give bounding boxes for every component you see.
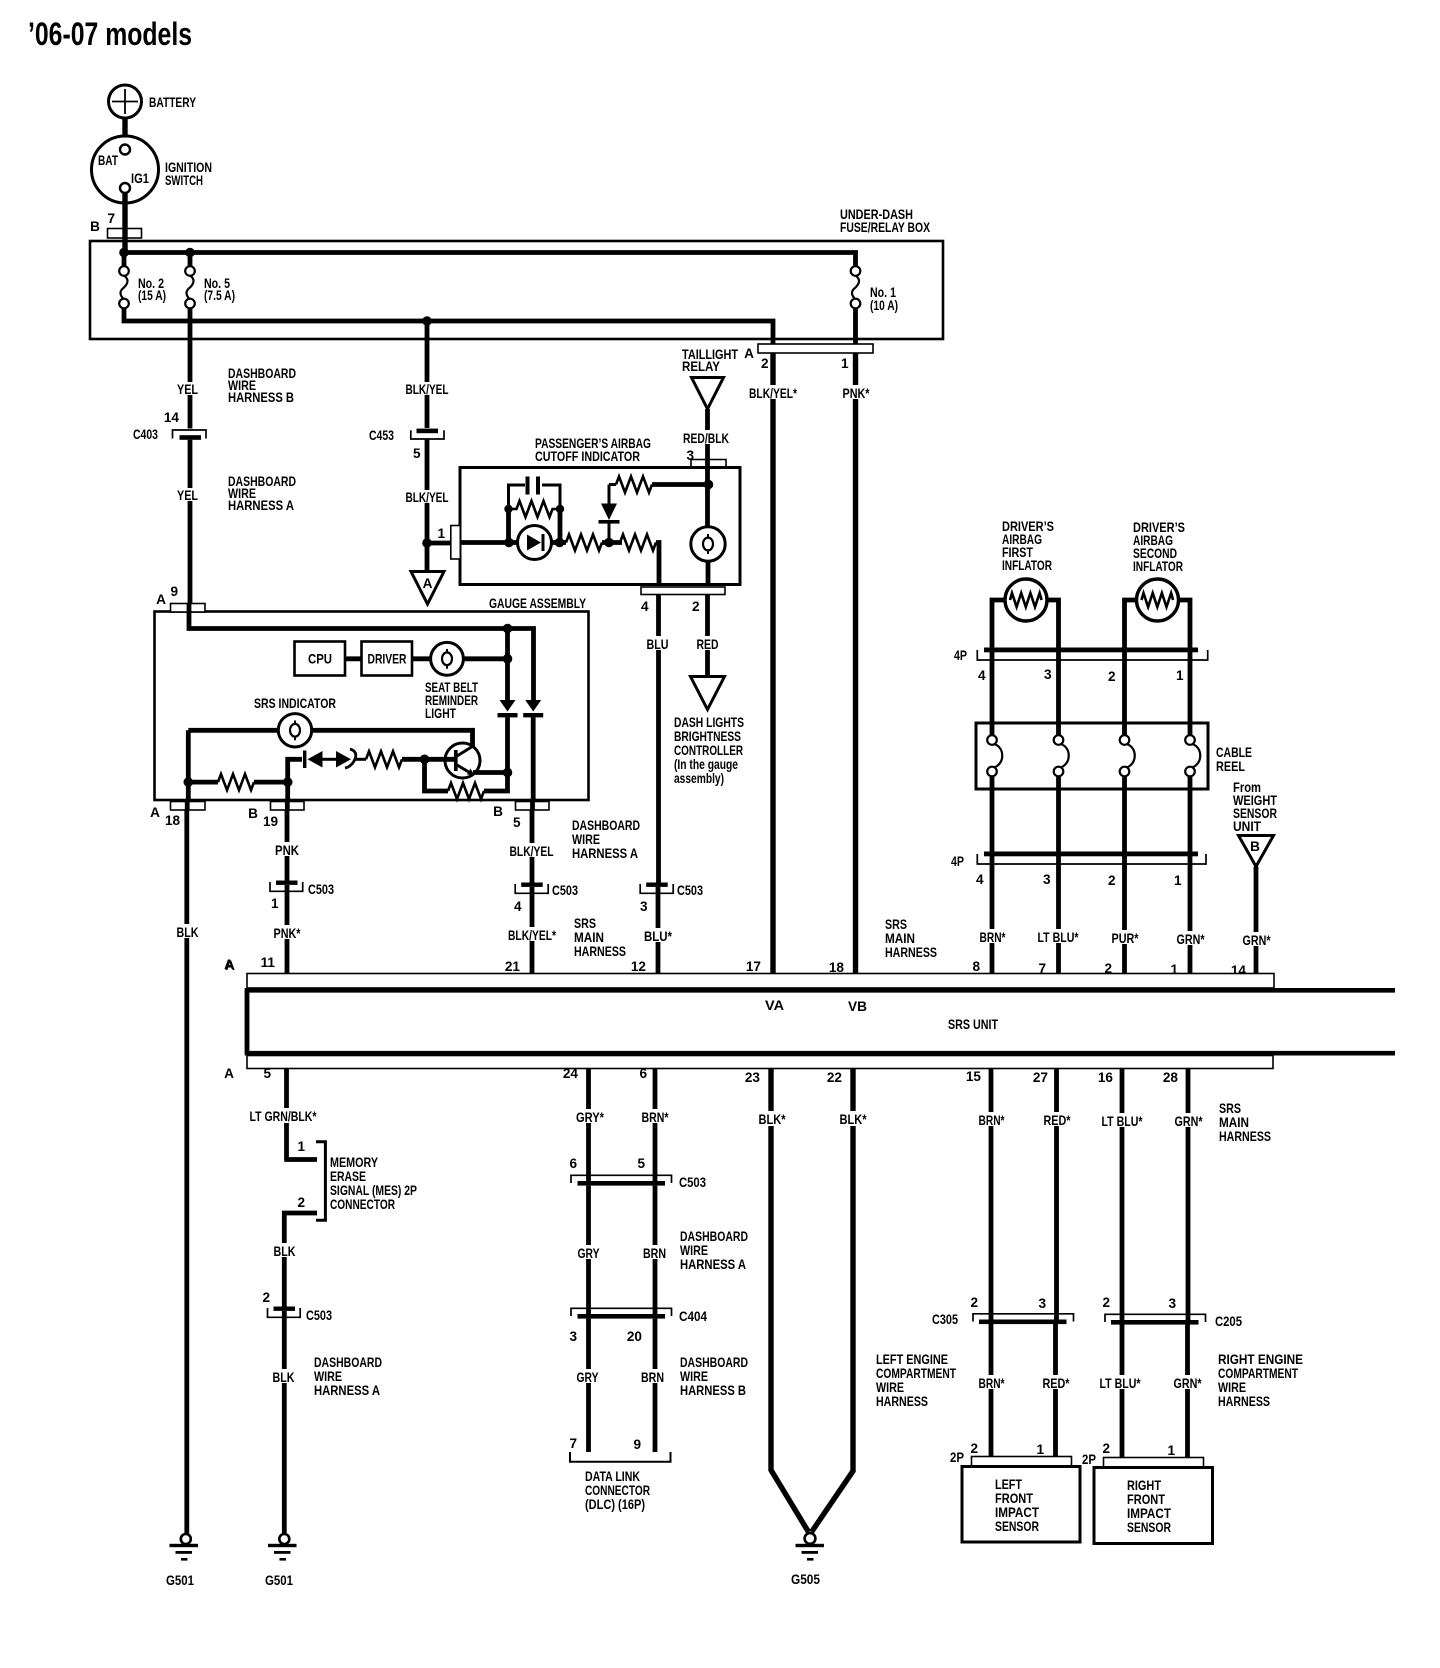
node emitter [503, 768, 513, 778]
svg-text:HARNESS B: HARNESS B [680, 1383, 746, 1398]
wire BLK/YEL from bus [425, 321, 430, 428]
ignition switch SW1 [92, 136, 213, 203]
wire BRN* sensor [989, 1069, 994, 1321]
svg-text:(7.5 A): (7.5 A) [204, 288, 235, 303]
svg-text:(15 A): (15 A) [138, 288, 166, 303]
driver's airbag second inflator label [1133, 520, 1185, 574]
svg-text:BLK/YEL*: BLK/YEL* [508, 928, 557, 943]
wire left leg [186, 730, 191, 800]
label GRN* s2 [1172, 1375, 1203, 1391]
svg-text:INFLATOR: INFLATOR [1133, 559, 1183, 574]
svg-text:A: A [150, 805, 160, 820]
label SRS main harness low right [1219, 1101, 1271, 1144]
wire RED/BLK relay to pin3 [705, 409, 710, 460]
svg-text:8: 8 [972, 959, 980, 974]
svg-text:1: 1 [271, 896, 279, 911]
svg-text:ERASE: ERASE [330, 1169, 366, 1184]
wire BRN* [653, 1069, 658, 1182]
svg-text:INFLATOR: INFLATOR [1002, 558, 1052, 573]
SRS indicator lamp [278, 714, 311, 747]
CPU box [295, 642, 346, 676]
passenger's airbag cutoff indicator label [535, 436, 651, 464]
svg-text:2: 2 [1108, 669, 1116, 684]
svg-text:RED*: RED* [1043, 1376, 1071, 1391]
svg-text:3: 3 [1038, 1296, 1046, 1311]
svg-text:2: 2 [1102, 1295, 1110, 1310]
svg-text:GAUGE ASSEMBLY: GAUGE ASSEMBLY [489, 596, 586, 611]
node bus2-blkyel [422, 316, 432, 326]
label BLK/YEL [508, 843, 555, 859]
svg-text:(10 A): (10 A) [870, 298, 898, 313]
svg-text:DASHBOARD: DASHBOARD [314, 1355, 382, 1370]
svg-text:A: A [423, 576, 433, 591]
svg-text:3: 3 [640, 899, 648, 914]
svg-text:BLK/YEL: BLK/YEL [406, 490, 449, 505]
svg-text:17: 17 [746, 959, 761, 974]
wire junction to pin1 of indicator [427, 541, 451, 546]
wire BLK* right of V [812, 1069, 854, 1533]
svg-text:DRIVER: DRIVER [368, 652, 407, 667]
right front impact sensor connector 2P [1082, 1441, 1204, 1467]
svg-text:BLK*: BLK* [840, 1112, 868, 1127]
DRIVER box [362, 642, 413, 676]
connector C305 [932, 1295, 1074, 1327]
wires 4P lower to SRS [992, 856, 1190, 974]
wire emitter to node [473, 770, 508, 775]
wire BLK* left of V [771, 1069, 809, 1533]
svg-text:11: 11 [261, 955, 276, 970]
label BLK/YEL* [747, 385, 799, 401]
svg-text:IMPACT: IMPACT [995, 1505, 1040, 1520]
svg-text:1: 1 [1167, 1443, 1175, 1458]
svg-text:(In the gauge: (In the gauge [674, 757, 738, 772]
diode D1 vertical [599, 485, 620, 543]
label memory erase signal [330, 1155, 417, 1212]
feedback loop with resistor R6 [425, 759, 508, 799]
svg-text:REEL: REEL [1216, 759, 1245, 774]
label dashboard wire harness B low [680, 1355, 748, 1398]
taillight relay label [682, 347, 739, 374]
node lamp top [704, 480, 714, 490]
wire SRS lamp row [188, 730, 472, 748]
wire main line in indicator [460, 540, 518, 545]
svg-text:SIGNAL (MES) 2P: SIGNAL (MES) 2P [330, 1183, 417, 1198]
connector 4P upper [954, 648, 1208, 685]
label dashboard wire harness B [228, 366, 296, 405]
passenger's airbag cutoff indicator box [460, 468, 740, 585]
label BLK* 2 [838, 1111, 868, 1127]
wire PNK drop [285, 810, 290, 881]
svg-text:WIRE: WIRE [1218, 1380, 1246, 1395]
svg-text:2: 2 [970, 1295, 978, 1310]
svg-text:BLK/YEL*: BLK/YEL* [749, 386, 798, 401]
SRS unit box [247, 990, 1395, 1053]
wire GRY mid [586, 1186, 591, 1314]
label PUR* [1110, 930, 1140, 946]
svg-text:LT BLU*: LT BLU* [1038, 930, 1080, 945]
arrow B from weight sensor [1239, 836, 1274, 867]
svg-text:WIRE: WIRE [876, 1380, 904, 1395]
node bus-fuse5 [185, 248, 195, 258]
svg-text:3: 3 [569, 1329, 577, 1344]
wire fuse2 drop [122, 253, 127, 267]
label LT BLU* s2 [1098, 1375, 1142, 1391]
svg-text:DASHBOARD: DASHBOARD [572, 818, 640, 833]
label BLK* [757, 1111, 787, 1127]
wires C205 to sensor [1122, 1325, 1188, 1459]
svg-text:B: B [493, 804, 503, 819]
svg-text:HARNESS: HARNESS [885, 945, 937, 960]
svg-text:RIGHT ENGINE: RIGHT ENGINE [1218, 1352, 1303, 1367]
wire PNK* drop [285, 885, 290, 974]
svg-text:MEMORY: MEMORY [330, 1155, 378, 1170]
svg-text:GRN*: GRN* [1175, 1114, 1204, 1129]
svg-text:CONNECTOR: CONNECTOR [585, 1483, 650, 1498]
diode D2 [498, 700, 518, 773]
svg-text:BRN*: BRN* [979, 1113, 1006, 1128]
node feed-diode1 [503, 624, 513, 634]
wire R1 to node [602, 540, 622, 545]
svg-text:4: 4 [976, 872, 984, 887]
svg-text:VB: VB [848, 999, 867, 1014]
svg-text:2: 2 [1102, 1441, 1110, 1456]
svg-text:SRS: SRS [574, 916, 596, 931]
wire R2 to lamp node [652, 482, 709, 487]
svg-text:24: 24 [563, 1066, 579, 1081]
wire CPU-DRIVER [345, 656, 362, 661]
svg-text:HARNESS A: HARNESS A [228, 498, 294, 513]
label BRN* [978, 929, 1007, 945]
svg-text:B: B [248, 806, 258, 821]
wire top bus in fuse box [124, 253, 856, 267]
wire R5 to base [402, 757, 454, 762]
svg-text:5: 5 [413, 446, 421, 461]
svg-text:C403: C403 [133, 427, 158, 442]
svg-text:DATA LINK: DATA LINK [585, 1469, 640, 1484]
svg-text:LT BLU*: LT BLU* [1102, 1114, 1144, 1129]
svg-text:23: 23 [745, 1070, 761, 1085]
svg-text:C503: C503 [677, 883, 703, 898]
resistor R-par [509, 501, 561, 517]
svg-text:20: 20 [627, 1329, 642, 1344]
SRS unit bottom connector bar [247, 1056, 1273, 1069]
svg-text:1: 1 [297, 1139, 305, 1154]
wire diode1 riser [505, 629, 510, 701]
cable reel label [1216, 745, 1252, 774]
connector C503 pin1 [270, 881, 334, 912]
svg-text:4P: 4P [951, 854, 964, 869]
svg-text:BRN: BRN [643, 1246, 666, 1261]
svg-text:FRONT: FRONT [995, 1491, 1034, 1506]
svg-text:BATTERY: BATTERY [149, 95, 196, 110]
svg-text:9: 9 [170, 584, 178, 599]
label LT BLU* [1036, 929, 1080, 945]
svg-text:B: B [1250, 839, 1260, 854]
label dashboard wire harness A [228, 474, 296, 513]
svg-text:1: 1 [1036, 1442, 1044, 1457]
svg-text:2P: 2P [950, 1450, 964, 1465]
svg-text:A: A [225, 958, 235, 973]
node LED right [555, 538, 565, 548]
reel coil 2 [1054, 735, 1069, 852]
svg-text:GRN*: GRN* [1177, 932, 1206, 947]
svg-text:UNIT: UNIT [1233, 819, 1262, 834]
svg-text:28: 28 [1163, 1070, 1179, 1085]
svg-text:LEFT: LEFT [995, 1477, 1023, 1492]
node left leg [184, 777, 194, 787]
wire MES pin2 stub [284, 1213, 317, 1307]
ground G501 right [265, 1534, 297, 1588]
dash lights brightness controller arrow [691, 677, 725, 710]
label dashboard wire harness A low [314, 1355, 382, 1398]
wire battery to ignition [122, 118, 127, 136]
svg-text:BAT: BAT [98, 153, 119, 168]
connector C403 pin 14 [133, 410, 206, 442]
svg-text:7: 7 [569, 1436, 577, 1451]
svg-text:SRS: SRS [1219, 1101, 1241, 1116]
wire LED to R1 [552, 540, 567, 545]
resistor R4 [188, 774, 287, 790]
node diode base [604, 538, 614, 548]
label BRN* [640, 1109, 670, 1125]
svg-text:2: 2 [692, 599, 700, 614]
label GRN* [1175, 931, 1206, 947]
svg-text:19: 19 [263, 814, 279, 829]
reel coil 4 [1185, 735, 1200, 852]
fuse No.2 (15A) [119, 266, 166, 308]
svg-text:SRS: SRS [885, 917, 907, 932]
wire ignition to fuse box pin 7 [122, 193, 127, 252]
transistor Q1 [445, 743, 480, 778]
label BRN* s2 [977, 1375, 1006, 1391]
wire lower bus in fuse box [124, 308, 773, 344]
svg-text:BLK/YEL: BLK/YEL [406, 382, 449, 397]
cable reel box [976, 723, 1208, 789]
connector pin 1 on left edge [451, 526, 461, 560]
svg-text:1: 1 [1174, 873, 1182, 888]
svg-text:B: B [90, 219, 100, 234]
svg-text:C453: C453 [369, 428, 394, 443]
svg-text:2: 2 [761, 356, 769, 371]
svg-text:C305: C305 [932, 1312, 958, 1327]
label BLK [271, 1369, 296, 1385]
svg-text:LIGHT: LIGHT [425, 706, 457, 721]
wire BLK to ground [282, 1311, 287, 1534]
svg-text:HARNESS B: HARNESS B [228, 390, 294, 405]
label dashboard wire harness A mid [572, 818, 640, 861]
svg-text:5: 5 [513, 815, 521, 830]
wire fuse1 bottom to pin1 [853, 308, 858, 344]
svg-text:CONTROLLER: CONTROLLER [674, 743, 743, 758]
svg-text:assembly): assembly) [674, 771, 724, 786]
svg-text:4: 4 [514, 899, 522, 914]
wire BLK gauge ground [184, 810, 189, 1534]
wire YEL harness B [188, 321, 193, 429]
svg-text:BLK*: BLK* [759, 1112, 787, 1127]
reel coil 3 [1120, 735, 1135, 852]
svg-text:MAIN: MAIN [1219, 1115, 1249, 1130]
svg-text:22: 22 [827, 1070, 843, 1085]
fuse No.5 (7.5A) [185, 253, 235, 309]
svg-text:COMPARTMENT: COMPARTMENT [1218, 1366, 1299, 1381]
svg-text:HARNESS: HARNESS [574, 944, 626, 959]
label YEL [176, 382, 199, 397]
svg-text:RED*: RED* [1044, 1113, 1072, 1128]
svg-text:WIRE: WIRE [572, 832, 600, 847]
wire BLU* drop [656, 887, 661, 974]
svg-text:G501: G501 [166, 1573, 194, 1588]
svg-text:YEL: YEL [177, 488, 198, 503]
svg-text:BLK/YEL: BLK/YEL [510, 844, 554, 859]
svg-text:WIRE: WIRE [680, 1243, 708, 1258]
svg-text:BLK: BLK [273, 1370, 295, 1385]
label RED [695, 636, 720, 652]
diode D3 [523, 700, 543, 800]
svg-text:DASH LIGHTS: DASH LIGHTS [674, 715, 744, 730]
svg-text:C205: C205 [1215, 1314, 1242, 1329]
svg-text:RED/BLK: RED/BLK [683, 431, 729, 446]
svg-text:SRS INDICATOR: SRS INDICATOR [254, 696, 336, 711]
resistor R1 [566, 535, 602, 551]
svg-text:A: A [744, 346, 754, 361]
svg-text:BRIGHTNESS: BRIGHTNESS [674, 729, 741, 744]
taillight relay arrow [692, 378, 724, 410]
ground G505 [791, 1533, 824, 1587]
svg-text:12: 12 [631, 959, 647, 974]
svg-text:4: 4 [641, 599, 649, 614]
label BLU [645, 636, 670, 652]
svg-text:6: 6 [639, 1066, 647, 1081]
label RED* s [1042, 1112, 1072, 1128]
svg-text:14: 14 [164, 410, 180, 425]
fuse No.1 (10A) [851, 266, 898, 313]
label left engine compartment wire harness [876, 1352, 957, 1409]
svg-text:2: 2 [297, 1195, 305, 1210]
svg-text:RED: RED [697, 637, 719, 652]
wire R3 to pin4 [656, 543, 659, 585]
node LED left [504, 538, 514, 548]
svg-text:CONNECTOR: CONNECTOR [330, 1197, 395, 1212]
wire BLK/YEL* drop [530, 887, 535, 974]
node RC left / right [504, 505, 512, 513]
svg-text:2: 2 [970, 1441, 978, 1456]
svg-text:HARNESS A: HARNESS A [314, 1383, 380, 1398]
svg-text:WIRE: WIRE [680, 1369, 708, 1384]
svg-text:7: 7 [107, 211, 115, 226]
svg-text:BRN*: BRN* [980, 930, 1007, 945]
node light-riser [503, 654, 513, 664]
svg-text:21: 21 [505, 959, 521, 974]
connector B19 [248, 802, 304, 830]
arrow A to gauge feed [411, 572, 444, 605]
wire RED drop [705, 595, 710, 677]
label SRS main harness right [885, 917, 937, 960]
svg-text:FRONT: FRONT [1127, 1492, 1166, 1507]
svg-text:C503: C503 [552, 883, 578, 898]
connector C453 pin 5 [369, 428, 444, 461]
wire GRN* sensor [1186, 1069, 1191, 1321]
wire LT GRN/BLK* [284, 1069, 289, 1160]
wire lamp to box bottom [706, 561, 711, 584]
svg-text:C503: C503 [306, 1308, 332, 1323]
capacitor C1 [526, 477, 541, 495]
label BLK/YEL [404, 382, 450, 397]
svg-text:2P: 2P [1082, 1452, 1096, 1467]
wire PNK* right drop [853, 353, 858, 974]
left front impact sensor box [962, 1467, 1080, 1543]
svg-text:PNK*: PNK* [274, 926, 302, 941]
svg-text:9: 9 [633, 1437, 641, 1452]
node BLK/YEL junction [422, 538, 432, 548]
inflator 1 squib [992, 579, 1059, 648]
connector C503 pin4 [514, 883, 578, 915]
svg-text:(DLC) (16P): (DLC) (16P) [585, 1497, 645, 1512]
right front impact sensor box [1094, 1468, 1213, 1544]
label RED/BLK [682, 430, 730, 446]
label SRS main harness left [574, 916, 626, 959]
wire GRY low [586, 1319, 591, 1452]
label PNK [274, 842, 301, 858]
label BRN* s [977, 1112, 1006, 1128]
SRS unit top connector bar [247, 974, 1274, 989]
label BLK/YEL* [506, 927, 558, 943]
svg-text:G505: G505 [791, 1572, 820, 1587]
wire YEL harness A [188, 440, 193, 604]
ground G501 left [166, 1534, 198, 1588]
label LT GRN/BLK* [248, 1108, 318, 1124]
label PNK* [272, 925, 302, 941]
svg-text:DASHBOARD: DASHBOARD [680, 1229, 748, 1244]
svg-text:BRN: BRN [641, 1370, 664, 1385]
wires C305 to sensor [991, 1324, 1056, 1457]
svg-text:BLK: BLK [274, 1244, 296, 1259]
svg-text:LT GRN/BLK*: LT GRN/BLK* [250, 1109, 318, 1124]
wires 4P to cable reel [992, 652, 1190, 736]
resistor R3 [620, 535, 656, 551]
svg-text:27: 27 [1033, 1070, 1048, 1085]
svg-text:BLU: BLU [647, 637, 669, 652]
wire fuse5 bottom [188, 308, 193, 321]
connector A9 [156, 584, 205, 612]
svg-text:3: 3 [1043, 872, 1051, 887]
svg-text:COMPARTMENT: COMPARTMENT [876, 1366, 957, 1381]
battery B1 [109, 85, 197, 118]
svg-text:1: 1 [841, 356, 849, 371]
svg-text:BLU*: BLU* [644, 929, 673, 944]
svg-text:VA: VA [765, 998, 784, 1013]
connector C503 6/5 [569, 1156, 706, 1190]
wire GRY* [586, 1069, 591, 1182]
svg-text:HARNESS A: HARNESS A [572, 846, 638, 861]
label right engine compartment wire harness [1218, 1352, 1303, 1409]
wire BRN mid [653, 1186, 658, 1314]
label PNK* [841, 385, 871, 401]
svg-text:HARNESS: HARNESS [1218, 1394, 1270, 1409]
label GRY [576, 1245, 601, 1261]
reel coil 1 [987, 735, 1002, 852]
svg-text:BRN*: BRN* [979, 1376, 1006, 1391]
wire BLK/YEL to junction [425, 440, 430, 571]
svg-text:IMPACT: IMPACT [1127, 1506, 1172, 1521]
svg-text:MAIN: MAIN [885, 931, 915, 946]
connector A18 [150, 802, 205, 829]
svg-text:3: 3 [1168, 1296, 1176, 1311]
indicator lamp L2 [691, 527, 725, 561]
svg-text:SENSOR: SENSOR [995, 1519, 1039, 1534]
svg-text:GRY: GRY [577, 1370, 599, 1385]
svg-text:BLK: BLK [177, 925, 199, 940]
connector C503 pin2 low [262, 1290, 332, 1323]
